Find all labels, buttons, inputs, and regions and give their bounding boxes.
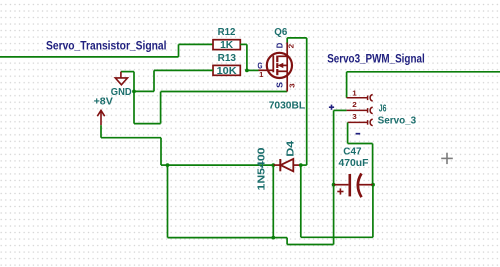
wire +8V drop	[160, 138, 162, 165]
wire step horizontal	[287, 244, 334, 246]
crosshair marker	[441, 153, 453, 164]
plus mark pin2	[329, 105, 334, 110]
svg-text:C47: C47	[343, 146, 361, 158]
junction cap left	[332, 183, 336, 187]
resistor R12	[213, 39, 240, 51]
wire pin2 stub	[334, 109, 347, 111]
svg-text:2: 2	[352, 100, 357, 109]
wire drain stub	[286, 38, 288, 44]
wire cathode down	[272, 165, 274, 238]
wire gnd node down	[133, 91, 135, 123]
svg-text:1N5400: 1N5400	[256, 147, 268, 190]
wire cap left riser	[333, 185, 335, 245]
svg-text:1: 1	[352, 89, 357, 98]
wire drain vertical	[306, 38, 308, 165]
svg-text:Servo_3: Servo_3	[378, 114, 417, 126]
wire PWM horizontal	[347, 71, 500, 73]
svg-text:3: 3	[352, 112, 357, 121]
svg-text:1: 1	[259, 70, 263, 79]
junction diode anode	[299, 163, 303, 167]
wire pin3 horizontal	[348, 143, 373, 145]
wire anode down	[300, 165, 302, 237]
wire pin2 vertical	[333, 110, 335, 184]
wire drain top	[287, 37, 307, 39]
wire detour riser	[160, 92, 162, 124]
svg-text:3: 3	[287, 83, 296, 88]
wire cap right down	[372, 185, 374, 238]
wire gate node to Q6	[247, 69, 259, 71]
resistor R13	[213, 65, 240, 77]
wire anode to drain drop	[301, 164, 307, 166]
wire detour bottom	[134, 123, 161, 125]
wire R13 left	[154, 69, 213, 71]
wire to gnd node	[134, 90, 154, 92]
wire +8V rail to diode	[168, 164, 274, 166]
wire anode bottom horizontal	[301, 236, 373, 238]
wire source rail	[161, 91, 288, 93]
wire signal riser	[178, 44, 180, 57]
connector J6 pin 2	[347, 107, 373, 114]
svg-text:2: 2	[287, 44, 296, 49]
wire +8V to node	[161, 164, 168, 166]
junction diode cathode	[271, 163, 275, 167]
wire signal horizontal	[0, 56, 179, 58]
svg-text:R12: R12	[218, 26, 236, 38]
wire to R12 left	[179, 43, 214, 45]
svg-text:S: S	[275, 81, 284, 88]
wire gnd stub vertical	[133, 72, 135, 92]
svg-text:D4: D4	[284, 141, 296, 157]
transistor Q6 drain pin	[286, 43, 288, 57]
svg-text:470uF: 470uF	[339, 157, 370, 169]
wire R13 drop	[153, 70, 155, 91]
connector J6 pin 1	[347, 95, 373, 102]
svg-text:J6: J6	[379, 102, 387, 114]
wire R12 right	[240, 43, 247, 45]
wire +8V horizontal	[101, 137, 161, 139]
connector J6 pin 3	[348, 119, 373, 126]
wire R12 to gate node	[246, 44, 248, 70]
ground symbol	[115, 72, 127, 85]
svg-text:Servo3_PWM_Signal: Servo3_PWM_Signal	[327, 53, 425, 65]
junction cap right	[371, 183, 375, 187]
diode D4	[273, 159, 301, 171]
wire PWM drop to pin1	[346, 72, 348, 98]
wire from +8V down	[100, 125, 102, 138]
wire pin3 drop	[347, 122, 349, 143]
svg-text:R13: R13	[218, 52, 237, 64]
wire pin3 to cap	[372, 144, 374, 185]
wire gnd stub horizontal	[121, 71, 134, 73]
junction bottom	[271, 236, 275, 240]
svg-text:D: D	[275, 43, 284, 49]
transistor Q6	[259, 53, 293, 78]
svg-text:7030BL: 7030BL	[269, 100, 306, 112]
wire step down	[286, 238, 288, 245]
transistor Q6 source pin	[286, 71, 288, 91]
junction gnd node	[132, 90, 136, 94]
svg-text:10K: 10K	[217, 65, 237, 77]
svg-text:1K: 1K	[220, 39, 233, 51]
svg-text:Servo_Transistor_Signal: Servo_Transistor_Signal	[46, 40, 167, 52]
junction +8V node	[166, 163, 170, 167]
junction gate node	[245, 69, 249, 73]
power symbol +8V	[97, 110, 104, 125]
wire bottom rail to step	[273, 237, 287, 239]
wire bottom rail left	[168, 237, 274, 239]
capacitor C47	[334, 174, 373, 198]
svg-text:GND: GND	[111, 86, 132, 98]
svg-text:Q6: Q6	[274, 26, 287, 38]
minus mark pin3	[356, 133, 361, 135]
svg-text:+8V: +8V	[94, 97, 114, 108]
wire node to bottom left	[167, 165, 169, 238]
